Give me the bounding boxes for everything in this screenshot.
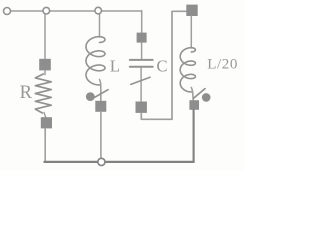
slash mark on L/20 branch <box>194 89 205 99</box>
contact square C bottom <box>136 102 147 113</box>
svg-text:L/20: L/20 <box>207 56 238 72</box>
node junction bottom <box>98 158 105 165</box>
wire inner loop right riser <box>172 11 186 119</box>
node dot beside L/20 <box>202 93 211 102</box>
svg-text:C: C <box>157 56 168 75</box>
wire L branch lower <box>100 112 102 160</box>
inductor L <box>86 37 105 85</box>
wire C branch upper <box>141 11 143 33</box>
svg-text:L: L <box>110 57 120 76</box>
node junction over R <box>43 7 50 14</box>
wire L/20 square to coil <box>190 16 192 48</box>
wire C bottom link <box>141 113 172 119</box>
wire resistor to square <box>44 113 46 118</box>
wire C square to plate <box>141 43 143 59</box>
node junction over L <box>95 7 102 14</box>
terminal input circle <box>4 8 11 15</box>
contact square C top <box>137 33 147 43</box>
wire L/20 branch lower <box>193 110 195 162</box>
capacitor C plate top <box>130 59 153 61</box>
wire top rail <box>11 10 142 12</box>
resistor R <box>35 74 51 113</box>
node dot beside L <box>86 92 95 101</box>
slash mark on C branch <box>131 77 150 84</box>
inductor L/20 <box>180 48 195 92</box>
wire R branch upper <box>44 12 46 59</box>
wire bottom rail <box>44 161 193 163</box>
svg-text:R: R <box>20 83 33 103</box>
contact square R bottom <box>41 117 52 128</box>
contact square L/20 bottom <box>189 100 199 110</box>
contact square R top <box>39 59 51 71</box>
wire R square to resistor <box>44 70 46 74</box>
wire C plate down <box>140 68 142 102</box>
wire L coil to square <box>100 80 101 102</box>
contact square L <box>95 101 106 112</box>
contact square L/20 top <box>186 5 197 16</box>
wire L branch upper <box>99 12 101 37</box>
capacitor C plate bottom <box>130 66 153 68</box>
wire L/20 coil exit <box>191 88 193 101</box>
slash mark on L branch <box>95 90 108 98</box>
wire R branch lower <box>44 128 46 161</box>
